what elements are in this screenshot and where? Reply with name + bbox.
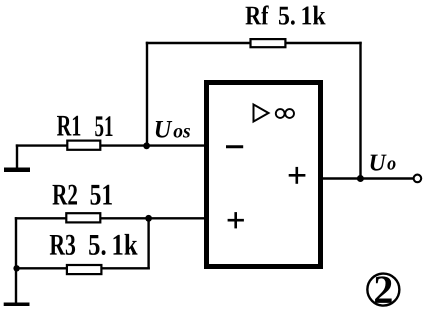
svg-text:o: o bbox=[387, 153, 396, 174]
svg-text:R1: R1 bbox=[57, 110, 82, 143]
svg-text:2: 2 bbox=[373, 267, 393, 312]
svg-text:os: os bbox=[173, 120, 191, 142]
svg-text:51: 51 bbox=[95, 110, 114, 143]
svg-text:5. 1k: 5. 1k bbox=[278, 0, 326, 30]
svg-text:Rf: Rf bbox=[245, 0, 269, 30]
svg-text:5. 1k: 5. 1k bbox=[88, 229, 138, 262]
svg-text:51: 51 bbox=[90, 179, 114, 212]
svg-text:U: U bbox=[369, 150, 388, 176]
svg-text:R2: R2 bbox=[52, 179, 78, 212]
svg-text:R3: R3 bbox=[49, 229, 76, 262]
svg-text:U: U bbox=[154, 116, 173, 143]
